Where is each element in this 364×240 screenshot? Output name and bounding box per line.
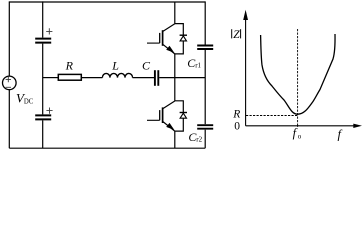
transistor Q1 emitter diagonal <box>163 44 175 54</box>
capacitor Cr1 plate 2 <box>197 48 213 50</box>
transistor Q1 body bar <box>162 30 164 46</box>
capacitor bus top: plate 1 <box>35 38 51 40</box>
bottom rail wire <box>9 147 205 149</box>
transistor Q1 emitter arrowhead <box>167 46 174 52</box>
diode D2 cathode bar <box>180 112 187 114</box>
wire mid branch left <box>43 77 59 79</box>
wire capacitor C to right rail through midpoint node <box>159 77 205 79</box>
voltage source VDC circle <box>3 76 17 90</box>
svg-text:r2: r2 <box>196 135 202 143</box>
impedance curve <box>261 34 335 114</box>
dashed horizontal line at R <box>246 115 298 117</box>
capacitor Cr1 plate 1 <box>197 45 213 47</box>
capacitor bus top: plate 2 <box>35 42 51 44</box>
capacitor bus bottom: plate 1 <box>35 114 51 116</box>
wire bottom IGBT collector jog to diode branch <box>175 101 184 131</box>
capacitor Cr2 plate 2 <box>197 128 213 130</box>
wire resistor to inductor <box>81 77 102 79</box>
inductor L coils <box>102 73 132 77</box>
transistor Q2 emitter arrowhead <box>167 123 174 129</box>
wire IGBT column bottom lead <box>174 131 176 148</box>
tick of fo below x-axis <box>297 125 299 127</box>
wire right rail middle <box>204 50 206 124</box>
svg-text:0: 0 <box>234 121 240 133</box>
VDC plus sign <box>6 77 11 82</box>
graph y-axis <box>245 18 247 126</box>
plus sign of bottom bus capacitor <box>46 108 52 114</box>
resistor R box <box>58 74 81 80</box>
svg-text:o: o <box>298 133 302 141</box>
diode D1 cathode bar <box>180 34 187 36</box>
wire top IGBT collector jog to diode branch <box>175 24 184 54</box>
svg-text:Z: Z <box>233 29 240 41</box>
diode D1 triangle <box>180 36 186 41</box>
VDC minus sign <box>6 86 11 88</box>
label |Z| left bar <box>231 29 233 38</box>
wire bus branch middle <box>42 44 44 115</box>
wire inductor to capacitor C <box>133 77 155 79</box>
transistor Q1 gate bar <box>159 33 161 43</box>
capacitor C plate right <box>157 70 159 86</box>
transistor Q1 gate lead <box>147 42 160 44</box>
transistor Q2 emitter diagonal <box>163 121 175 131</box>
capacitor C plate left <box>154 70 156 86</box>
transistor Q1 collector diagonal <box>162 24 175 32</box>
transistor Q2 gate lead <box>147 119 160 121</box>
graph x-axis arrowhead <box>353 124 362 128</box>
svg-text:f: f <box>338 128 343 142</box>
diode D2 triangle <box>180 113 186 118</box>
graph x-axis <box>246 125 355 127</box>
transistor Q2 collector diagonal <box>162 101 175 109</box>
wire right rail lower <box>204 130 206 149</box>
wire left rail lower <box>8 90 10 149</box>
svg-text:r1: r1 <box>195 61 201 69</box>
wire IGBT column middle <box>174 54 176 101</box>
svg-text:R: R <box>65 59 74 73</box>
capacitor bus bottom: plate 2 <box>35 118 51 120</box>
wire left rail upper <box>8 1 10 76</box>
svg-text:DC: DC <box>24 98 34 105</box>
transistor Q2 gate bar <box>159 110 161 120</box>
top rail wire <box>9 1 205 3</box>
svg-text:C: C <box>142 58 151 72</box>
wire bus branch lower <box>42 120 44 148</box>
label |Z| right bar <box>240 29 242 38</box>
wire bus branch upper <box>42 1 44 37</box>
plus sign of top bus capacitor <box>46 28 52 34</box>
dashed vertical line at fo <box>297 29 299 126</box>
capacitor Cr2 plate 1 <box>197 124 213 126</box>
svg-text:L: L <box>111 58 119 72</box>
transistor Q2 body bar <box>162 107 164 123</box>
wire IGBT column top lead <box>174 2 176 24</box>
svg-text:R: R <box>232 109 240 121</box>
graph y-axis arrowhead <box>243 10 248 20</box>
wire right rail upper <box>204 1 206 44</box>
